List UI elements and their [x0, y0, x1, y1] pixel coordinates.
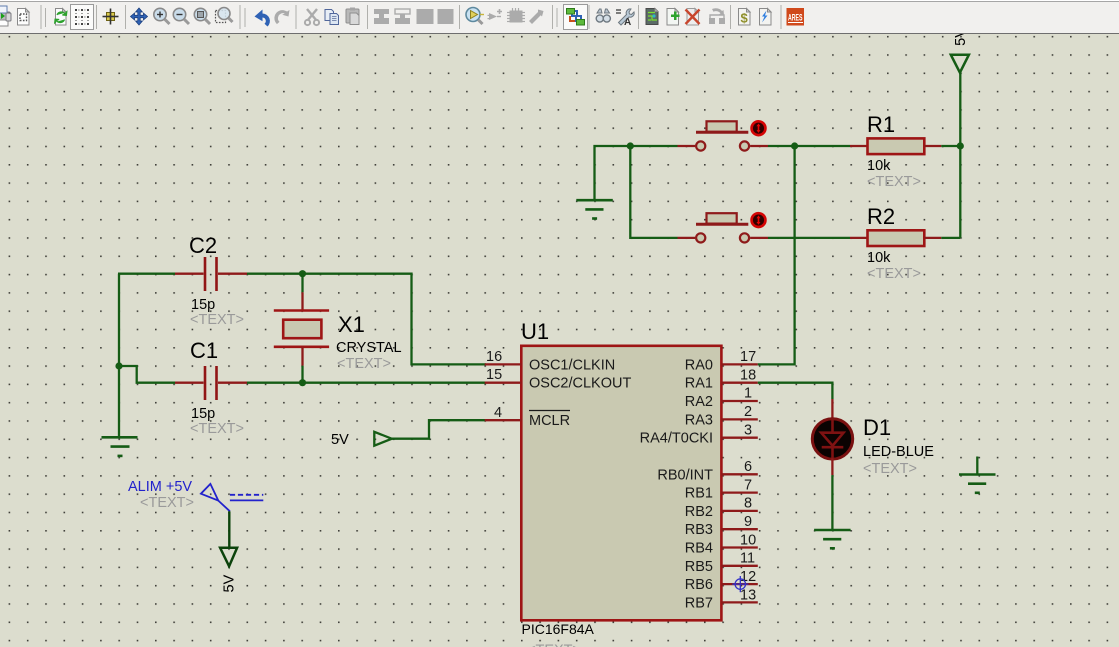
- ground below LED: [814, 530, 851, 548]
- svg-text:RA1: RA1: [685, 376, 713, 392]
- pin 16 OSC1/CLKIN: [485, 349, 616, 373]
- junction at crystal bottom: [299, 379, 306, 386]
- svg-text:RA0: RA0: [685, 357, 713, 373]
- svg-text:10k: 10k: [867, 250, 891, 266]
- junction on left rail at C1 stub: [115, 362, 122, 369]
- wire: C1 stub from left rail: [119, 366, 175, 383]
- svg-text:10k: 10k: [867, 158, 891, 174]
- toolbar icon: copy: [325, 10, 339, 25]
- toolbar icon: pan: [131, 8, 148, 25]
- 5V power terminal top right: [951, 28, 969, 73]
- svg-text:RB4: RB4: [685, 541, 713, 557]
- pin 6 RB0/INT: [657, 459, 757, 483]
- toolbar separator: [588, 5, 590, 29]
- toolbar icon: design explorer: [646, 9, 658, 25]
- svg-text:12: 12: [740, 569, 756, 585]
- 5V power terminal at MCLR: [331, 432, 392, 448]
- toolbar icon: search: [596, 9, 610, 22]
- toolbar icon: paste: [346, 8, 359, 25]
- pin 9 RB3: [685, 514, 758, 538]
- capacitor C1: [175, 338, 247, 437]
- toolbar icon: zoom in: [154, 8, 170, 24]
- toolbar separator: [459, 5, 461, 29]
- svg-text:C2: C2: [189, 233, 217, 258]
- wire: C1 row right segment to OSC2 pin: [247, 382, 486, 384]
- toolbar icon: remove sheet: [686, 9, 700, 26]
- toolbar separator: [367, 5, 369, 29]
- ground left of buttons: [576, 146, 629, 219]
- svg-text:RA2: RA2: [685, 394, 713, 410]
- pin 18 RA1: [685, 368, 758, 392]
- toolbar separator: [780, 5, 782, 29]
- pin 3 RA4/T0CKI: [640, 423, 758, 447]
- svg-text:RB6: RB6: [685, 577, 713, 593]
- cursor crosshair at pin RB6: [732, 576, 748, 592]
- toolbar icon: electrical rule check: [760, 9, 772, 26]
- svg-text:<TEXT>: <TEXT>: [867, 174, 921, 190]
- toolbar icon: ARES netlist: [787, 8, 805, 26]
- junction at button rail top: [627, 142, 634, 149]
- toolbar icon: decompose: [529, 10, 544, 25]
- svg-text:RB1: RB1: [685, 486, 713, 502]
- svg-text:ARES: ARES: [788, 13, 803, 24]
- push button 2: [678, 213, 769, 242]
- svg-text:10: 10: [740, 533, 756, 549]
- svg-text:<TEXT>: <TEXT>: [527, 643, 581, 647]
- svg-text:6: 6: [744, 459, 752, 475]
- 5V rail vertical wire: [959, 72, 961, 238]
- svg-text:8: 8: [744, 496, 752, 512]
- ground below left rail: [102, 437, 138, 456]
- pin 7 RB1: [685, 478, 758, 502]
- toolbar icon: redraw: [55, 9, 67, 26]
- pin 4 MCLR: [485, 405, 570, 429]
- svg-text:<TEXT>: <TEXT>: [190, 421, 244, 437]
- wire: C2 row left segment: [118, 273, 175, 275]
- svg-text:C1: C1: [190, 338, 218, 363]
- junction at crystal top: [299, 270, 306, 277]
- svg-text:17: 17: [740, 349, 756, 365]
- pin 1 RA2: [685, 386, 758, 411]
- toolbar icon: redo: [274, 10, 289, 24]
- pin 17 RA0: [685, 349, 758, 373]
- toolbar separator: [295, 5, 297, 29]
- wire: LED to ground: [831, 475, 833, 529]
- toolbar icon: block delete: [438, 9, 454, 24]
- toolbar icon: zoom full: [194, 8, 210, 24]
- junction right of button 1: [791, 142, 798, 149]
- wire: left rail from C2 row down to ground: [118, 274, 120, 437]
- resistor R2: [850, 204, 941, 282]
- toolbar icon: origin: [103, 9, 119, 25]
- capacitor C2: [175, 233, 247, 328]
- wire: down to RA0 pin 17: [758, 146, 795, 364]
- svg-text:$: $: [741, 11, 749, 26]
- svg-text:ALIM +5V: ALIM +5V: [128, 479, 192, 495]
- pin 15 OSC2/CLKOUT: [485, 367, 632, 392]
- toolbar separator: [638, 5, 640, 29]
- pin 12 RB6: [685, 569, 758, 593]
- floating ground right of LED: [959, 457, 996, 493]
- svg-text:16: 16: [486, 349, 502, 365]
- svg-text:1: 1: [744, 386, 752, 402]
- pin 10 RB4: [685, 533, 758, 557]
- toolbar separator: [96, 5, 98, 29]
- svg-text:RA4/T0CKI: RA4/T0CKI: [640, 431, 713, 447]
- toolbar icon: zoom area: [216, 8, 233, 23]
- toolbar icon: new sheet: [667, 9, 680, 26]
- svg-text:15p: 15p: [191, 297, 215, 313]
- svg-text:PIC16F84A: PIC16F84A: [522, 621, 595, 637]
- junction at 5V rail: [957, 142, 964, 149]
- ALIM +5V terminal label: [128, 479, 194, 511]
- svg-text:5V: 5V: [331, 432, 349, 448]
- svg-text:X1: X1: [338, 312, 365, 337]
- toolbar separator: [40, 5, 42, 29]
- toolbar icon: property assignment tool: [616, 9, 634, 28]
- svg-text:OSC1/CLKIN: OSC1/CLKIN: [529, 357, 615, 373]
- toolbar icon: undo: [255, 10, 270, 27]
- ALIM power wire: [228, 511, 230, 546]
- toolbar icon: mark region: [18, 9, 30, 26]
- svg-text:2: 2: [744, 404, 752, 420]
- crystal X1: [274, 274, 402, 383]
- svg-text:5V: 5V: [222, 574, 238, 592]
- pin 2 RA3: [685, 404, 758, 428]
- resistor R1: [850, 112, 941, 190]
- pin 13 RB7: [685, 588, 758, 612]
- svg-text:18: 18: [740, 368, 756, 384]
- svg-text:<TEXT>: <TEXT>: [867, 266, 921, 282]
- svg-text:15p: 15p: [191, 406, 215, 422]
- wire: 5V terminal to MCLR pin: [392, 420, 486, 439]
- svg-text:13: 13: [740, 588, 756, 604]
- svg-text:A: A: [624, 17, 631, 28]
- toolbar separator: [239, 5, 241, 29]
- wire: R1 to 5V rail: [941, 145, 960, 147]
- svg-text:U1: U1: [521, 319, 549, 344]
- toolbar icon: block move: [395, 9, 410, 24]
- svg-text:R1: R1: [867, 112, 895, 137]
- svg-text:11: 11: [740, 551, 755, 567]
- toolbar icon: wire autorouter (pressed): [564, 5, 588, 30]
- wire: junction to button 1: [630, 145, 677, 147]
- toolbar icon: cut: [305, 9, 319, 25]
- wire: R2 to 5V rail: [941, 237, 960, 239]
- wire: button 2 to R2: [768, 237, 850, 239]
- svg-text:OSC2/CLKOUT: OSC2/CLKOUT: [529, 376, 631, 392]
- toolbar icon: bill of materials: [739, 9, 751, 26]
- svg-text:<TEXT>: <TEXT>: [190, 312, 244, 328]
- svg-text:MCLR: MCLR: [529, 413, 570, 429]
- svg-text:R2: R2: [867, 204, 895, 229]
- toolbar icon: zoom out: [173, 8, 189, 24]
- svg-text:<TEXT>: <TEXT>: [337, 356, 391, 372]
- svg-text:15: 15: [486, 367, 502, 383]
- svg-text:D1: D1: [863, 415, 891, 440]
- chip U1 PIC16F84A: [521, 319, 721, 647]
- ALIM down arrow power terminal: [220, 548, 237, 567]
- pin 11 RB5: [685, 551, 758, 575]
- toolbar separator: [125, 5, 127, 29]
- svg-text:3: 3: [744, 423, 752, 439]
- toolbar icon: package: [507, 8, 525, 23]
- svg-text:LED-BLUE: LED-BLUE: [863, 444, 934, 460]
- push button 1: [678, 121, 769, 150]
- pin 8 RB2: [685, 496, 758, 520]
- toolbar background: [0, 0, 1119, 34]
- svg-text:CRYSTAL: CRYSTAL: [336, 340, 402, 356]
- svg-text:RB3: RB3: [685, 522, 713, 538]
- ALIM terminal symbol: [201, 484, 263, 511]
- toolbar icon: view part: [466, 8, 484, 25]
- svg-text:RB7: RB7: [685, 595, 713, 611]
- toolbar icon: grid toggle (pressed): [71, 5, 94, 30]
- toolbar separator: [552, 5, 554, 29]
- svg-text:4: 4: [494, 405, 502, 421]
- LED D1: [812, 399, 934, 477]
- svg-text:<TEXT>: <TEXT>: [863, 461, 917, 477]
- svg-text:<TEXT>: <TEXT>: [140, 495, 194, 511]
- wire: button 1 to R1: [768, 145, 850, 147]
- svg-text:RB2: RB2: [685, 504, 713, 520]
- wire: button rail down to second button: [630, 146, 677, 238]
- svg-text:RB0/INT: RB0/INT: [657, 467, 713, 483]
- toolbar icon: block rotate: [417, 9, 434, 24]
- toolbar icon: goto sheet: [709, 8, 725, 24]
- svg-text:RA3: RA3: [685, 412, 713, 428]
- wire: C2 row right segment to OSC1 corner: [247, 274, 486, 365]
- svg-text:RB5: RB5: [685, 559, 713, 575]
- toolbar icon: block copy: [374, 9, 389, 24]
- toolbar separator: [730, 5, 732, 29]
- svg-text:7: 7: [744, 478, 752, 494]
- toolbar icon: print (clipped at left edge): [0, 6, 11, 26]
- svg-text:9: 9: [744, 514, 752, 530]
- toolbar icon: goto part: [488, 9, 503, 20]
- wire: RA1 pin 18 to LED: [758, 383, 833, 399]
